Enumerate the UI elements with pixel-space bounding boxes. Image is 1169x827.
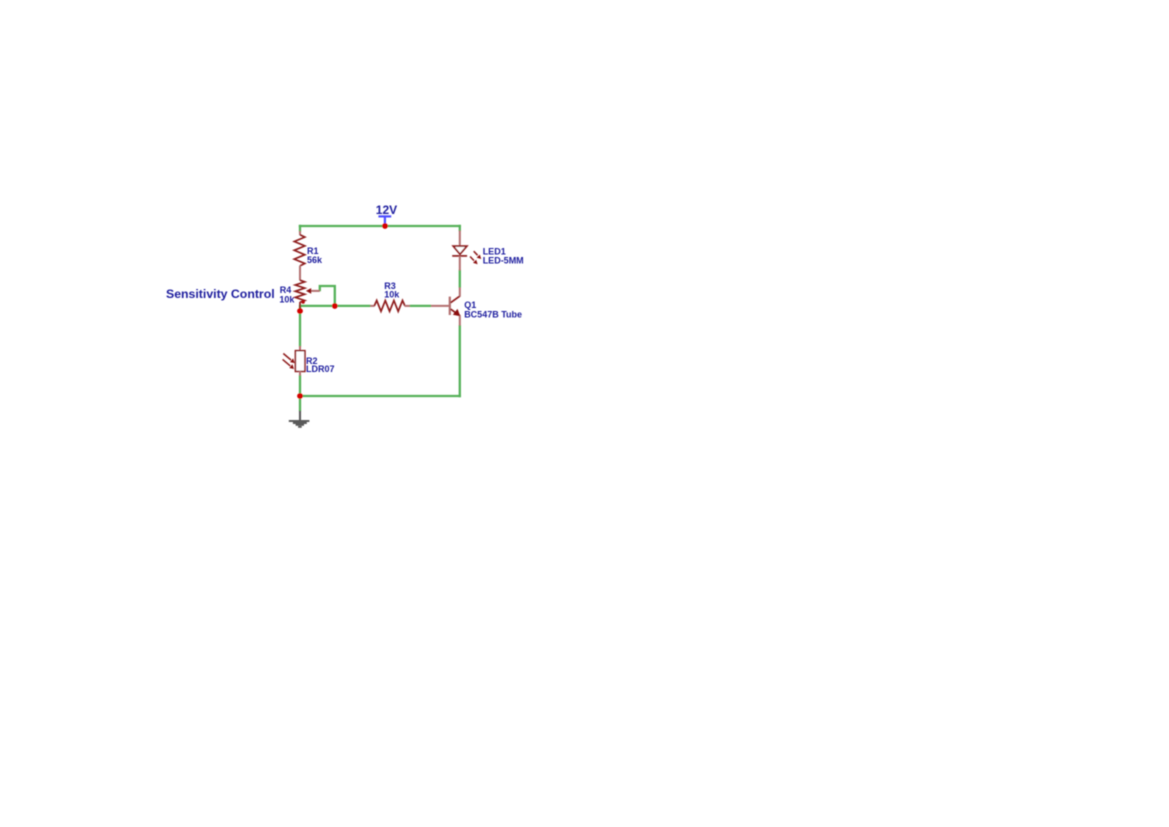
junction wiper net on base wire [332, 303, 338, 309]
resistor R3 (10k) [370, 301, 410, 312]
ground [289, 411, 310, 428]
light arrows into R2 [283, 354, 291, 361]
svg-text:12V: 12V [376, 203, 397, 217]
wire wiper feedback (R4 wiper to base net) [320, 286, 335, 306]
wire left rail: R2 bottom to ground [299, 375, 301, 411]
junction pot bottom / R2 top [297, 308, 303, 314]
wire bottom rail [299, 395, 461, 397]
LED1 (LED-5MM) [452, 231, 481, 271]
wire left rail: pot bottom to R2 top [299, 305, 301, 347]
svg-text:Sensitivity Control: Sensitivity Control [166, 287, 275, 301]
svg-text:BC547B Tube: BC547B Tube [464, 310, 522, 320]
wire right rail upper (top rail to LED1 anode) [459, 225, 461, 231]
wire base net (pot bottom to R3 and Q1 base) [300, 305, 371, 307]
wire right rail mid (LED1 cathode to Q1 collector) [459, 270, 461, 288]
wire top rail (+12V) [299, 225, 461, 227]
junction R2 bottom / bottom rail [297, 393, 303, 399]
svg-text:10k: 10k [384, 290, 400, 300]
potentiometer R4 (10k) [295, 280, 320, 309]
wire right rail lower (Q1 emitter to bottom rail) [459, 325, 461, 397]
resistor R1 (56k) [294, 231, 305, 280]
pin end dot of R4 [301, 300, 304, 303]
wiper arrow of R4 [310, 290, 320, 292]
junction 12V on top rail [382, 223, 388, 229]
svg-text:56k: 56k [307, 255, 323, 265]
emission arrows of LED1 [474, 251, 478, 255]
power terminal 12V symbol [378, 216, 391, 226]
wire left rail upper (top rail to R1) [299, 225, 301, 232]
svg-text:LDR07: LDR07 [306, 364, 335, 374]
LDR R2 (LDR07) [283, 346, 305, 376]
svg-text:LED-5MM: LED-5MM [483, 256, 524, 266]
wire R3 right to Q1 base [410, 305, 431, 307]
svg-text:10k: 10k [279, 295, 295, 305]
transistor Q1 (BC547B) [431, 287, 460, 325]
